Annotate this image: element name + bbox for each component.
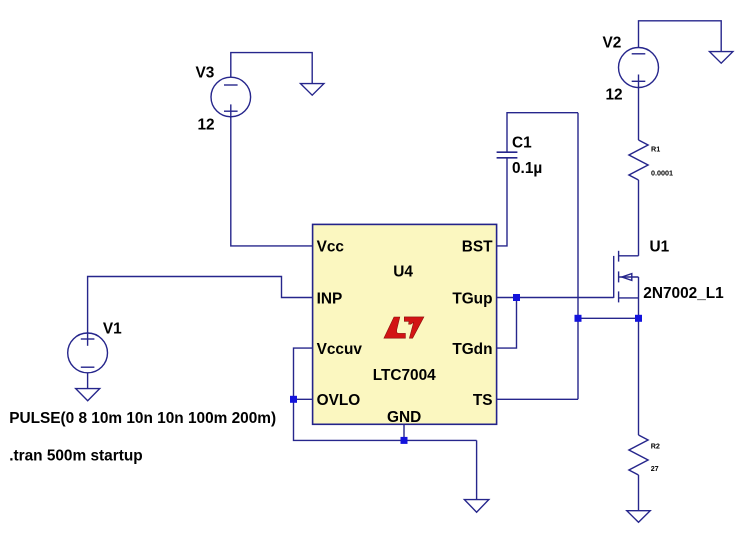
node junction TGup/TGdn: [513, 294, 520, 301]
svg-text:Vccuv: Vccuv: [317, 341, 363, 358]
node junction TS net: [575, 315, 582, 322]
svg-text:C1: C1: [512, 135, 532, 152]
svg-text:TGdn: TGdn: [452, 341, 492, 358]
svg-text:R1: R1: [651, 144, 660, 153]
svg-text:2N7002_L1: 2N7002_L1: [643, 285, 724, 302]
wire V1 top to INP pin: [88, 277, 313, 334]
ground (IC net): [464, 500, 488, 513]
wire V1 bottom: [87, 373, 89, 389]
svg-text:Vcc: Vcc: [317, 239, 345, 256]
svg-text:INP: INP: [317, 290, 343, 307]
wire C1 bottom to BST pin: [497, 158, 507, 246]
wire V2 top to ground: [639, 21, 722, 52]
wire OVLO pin: [294, 398, 313, 400]
svg-text:0.1µ: 0.1µ: [512, 160, 542, 177]
wire TGdn pin up to TGup: [497, 298, 517, 349]
transistor U1 (NMOS): [614, 251, 639, 318]
IC U4 body (LTC7004): [313, 224, 497, 424]
wire TS pin: [497, 398, 578, 400]
svg-text:12: 12: [198, 116, 215, 133]
ground (V3 net): [301, 84, 324, 96]
svg-text:GND: GND: [387, 409, 421, 426]
svg-text:0.0001: 0.0001: [651, 169, 673, 178]
ground (V1 net): [76, 389, 100, 401]
wire V2 bottom to R1: [638, 88, 640, 141]
resistor R1: [629, 140, 648, 180]
svg-text:TS: TS: [473, 392, 493, 409]
wire TGup pin to U1 gate: [497, 297, 614, 299]
wire TS junction to source junction: [578, 317, 639, 319]
svg-text:BST: BST: [462, 239, 493, 256]
LT logo: [384, 317, 424, 338]
svg-text:TGup: TGup: [452, 290, 492, 307]
svg-text:U4: U4: [393, 263, 413, 280]
wire TS net vertical: [577, 113, 579, 400]
svg-text:V1: V1: [103, 320, 122, 337]
capacitor C1: [497, 152, 518, 158]
wire R2 to ground: [638, 475, 640, 511]
svg-text:V3: V3: [196, 65, 215, 82]
ground (V2 net): [710, 52, 733, 64]
node junction GND rail: [401, 437, 408, 444]
wire GND pin stub: [403, 424, 405, 440]
svg-text:U1: U1: [650, 239, 670, 256]
wire OVLO junction down to ground rail: [294, 399, 477, 440]
voltage source V2: [619, 48, 659, 89]
voltage source V3: [211, 77, 251, 118]
svg-text:OVLO: OVLO: [317, 392, 361, 409]
wire ground rail to ground symbol: [476, 440, 478, 499]
wire Vccuv pin: [294, 348, 313, 399]
node junction OVLO/Vccuv: [290, 396, 297, 403]
svg-text:R2: R2: [651, 441, 660, 450]
ground (R2 net): [627, 511, 650, 523]
svg-text:12: 12: [606, 87, 623, 104]
resistor R2: [629, 435, 648, 475]
wire V3 bottom to Vcc pin: [231, 117, 313, 246]
wire R1 to U1 drain: [638, 180, 640, 256]
voltage source V1: [68, 332, 108, 373]
svg-text:.tran 500m startup: .tran 500m startup: [9, 447, 142, 464]
svg-text:V2: V2: [603, 34, 622, 51]
node junction U1 source: [635, 315, 642, 322]
wire C1 top to TS net: [507, 113, 578, 153]
svg-text:LTC7004: LTC7004: [373, 367, 436, 384]
wire U1 source to R2 junction: [638, 318, 640, 435]
wire V3 top to ground: [231, 53, 312, 84]
svg-text:27: 27: [651, 464, 659, 473]
svg-text:PULSE(0 8 10m 10n 10n 100m 200: PULSE(0 8 10m 10n 10n 100m 200m): [9, 410, 276, 427]
